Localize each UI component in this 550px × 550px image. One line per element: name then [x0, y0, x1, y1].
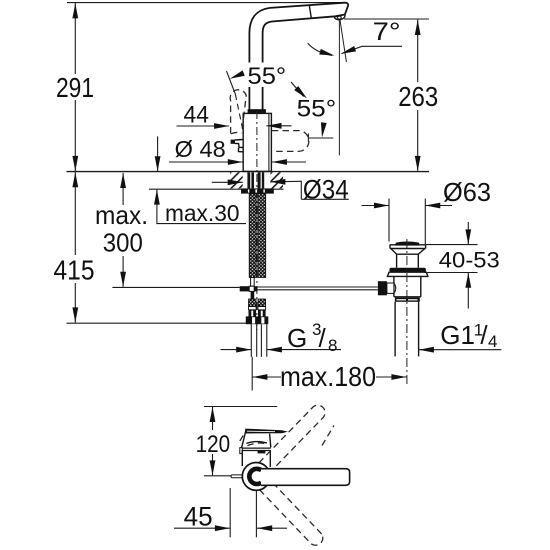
svg-text:44: 44 — [184, 101, 209, 128]
label 55 deg right with leader — [297, 96, 337, 142]
spout seam — [309, 6, 311, 19]
counter top line — [67, 171, 430, 173]
svg-text:max.180: max.180 — [280, 361, 376, 392]
top view: lever — [261, 469, 350, 486]
dimension max.180 — [252, 357, 406, 392]
drain centerline — [406, 239, 408, 384]
counter hatch left — [230, 172, 243, 188]
knob — [395, 242, 419, 246]
threaded studs — [249, 194, 265, 278]
hose connectors — [249, 299, 266, 317]
upper body cylinder — [396, 254, 398, 268]
svg-text:415: 415 — [54, 255, 95, 286]
bottom fitting — [394, 296, 421, 298]
top view: spout bar — [245, 429, 288, 434]
top view: left tab — [231, 475, 243, 478]
hose hex nuts — [246, 316, 268, 324]
dimension 44 — [177, 101, 292, 128]
svg-text:300: 300 — [103, 228, 143, 258]
dashed horizontal handle — [272, 131, 309, 152]
svg-text:Ø 48: Ø 48 — [175, 136, 226, 162]
horizontal pop-up rod — [257, 286, 377, 288]
dimension 40-53 — [425, 222, 500, 309]
aerator — [334, 15, 345, 20]
tailpipe — [394, 302, 396, 357]
dimension O48 — [169, 136, 306, 165]
svg-text:7°: 7° — [373, 18, 401, 46]
svg-text:G: G — [287, 323, 307, 353]
dimension O34 with leader box — [212, 175, 349, 205]
svg-text:Ø63: Ø63 — [443, 177, 491, 207]
svg-text:291: 291 — [56, 72, 94, 103]
supply hoses — [251, 324, 266, 357]
body cap (black) — [248, 109, 266, 113]
counter hatch right — [270, 172, 283, 188]
locking ring — [387, 272, 428, 276]
dashed lever up-right — [251, 405, 325, 481]
svg-text:Ø34: Ø34 — [303, 175, 349, 205]
under-counter centerline — [256, 174, 258, 330]
stray hatch dashes — [240, 426, 334, 446]
svg-text:G1: G1 — [440, 320, 475, 350]
label 55 deg left with leaders — [227, 63, 310, 133]
svg-text:45: 45 — [184, 502, 213, 532]
dimension 120 — [196, 407, 231, 475]
svg-text:max.30: max.30 — [165, 200, 240, 226]
top extension line (spout top level) — [67, 2, 345, 4]
flange — [390, 244, 426, 246]
spout outline — [249, 3, 348, 110]
top view: swivel circle — [242, 463, 270, 491]
real lever (solid, pointing left) — [231, 140, 244, 152]
water stream lines — [338, 19, 340, 155]
locking nut — [241, 188, 274, 193]
gasket ring — [389, 268, 426, 273]
svg-text:40-53: 40-53 — [439, 247, 500, 272]
dimension max.300 — [95, 173, 240, 287]
rod port — [378, 281, 387, 295]
counter bottom line — [149, 188, 284, 190]
120 top extension line — [204, 406, 277, 408]
lower body — [393, 276, 395, 296]
top view: C ring — [249, 469, 261, 484]
label 7 deg with leader — [308, 18, 402, 58]
svg-text:120: 120 — [196, 431, 231, 458]
dashed lever down-right — [260, 480, 323, 545]
dimension O63 — [362, 177, 492, 245]
pull-rod tee — [240, 278, 258, 300]
body centerline — [256, 111, 258, 171]
svg-text:8: 8 — [328, 336, 337, 355]
dashed upright handle — [230, 90, 246, 134]
dimension 415 — [54, 172, 247, 323]
svg-text:max.: max. — [95, 200, 148, 230]
dimension 263 — [344, 19, 438, 171]
svg-text:55°: 55° — [297, 96, 337, 123]
svg-text:263: 263 — [398, 81, 438, 112]
dimension 45 — [174, 488, 287, 537]
svg-text:55°: 55° — [248, 63, 287, 90]
dimension G3/8 — [221, 320, 342, 355]
faucet body — [243, 113, 271, 171]
top view: base block — [242, 450, 270, 467]
drain pop-up waste assembly — [378, 239, 428, 384]
top view: escutcheon — [240, 430, 271, 453]
120 bottom extension line — [204, 475, 237, 477]
svg-text:/: / — [319, 323, 327, 353]
dimension max.30 — [154, 136, 246, 226]
svg-text:4: 4 — [488, 332, 497, 351]
label G1 1/4 with leader — [419, 320, 502, 353]
threaded shank cross-section — [247, 172, 264, 188]
dimension 291 — [56, 3, 94, 171]
swivel arc arrow — [308, 43, 332, 55]
